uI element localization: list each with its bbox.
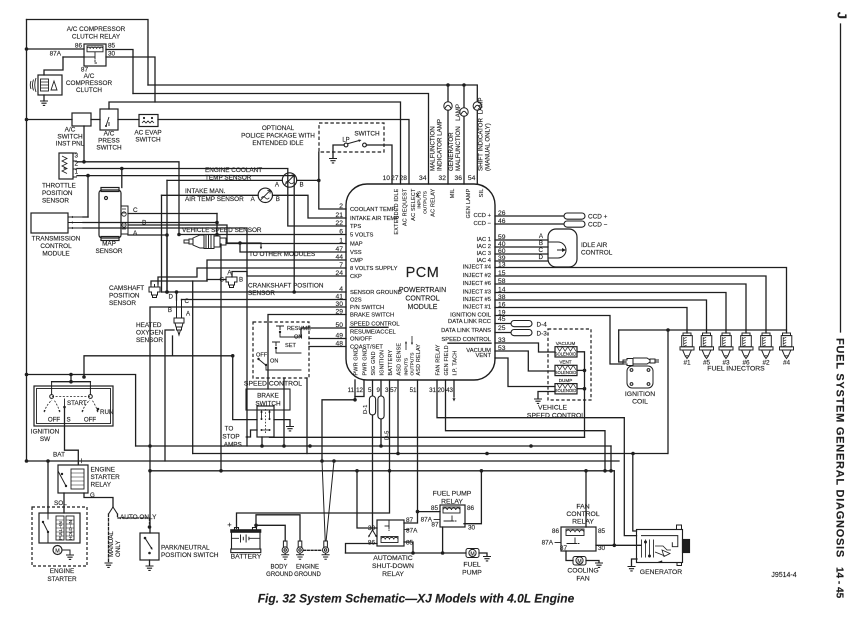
svg-text:POSITION: POSITION [109,293,140,300]
svg-text:VACUUM: VACUUM [556,341,576,346]
svg-text:11: 11 [348,387,355,394]
wire o2 shell to bus [165,330,174,461]
svg-text:FUEL PUMP: FUEL PUMP [433,491,472,498]
svg-text:OFF: OFF [84,417,97,424]
svg-text:D: D [169,294,174,301]
fuel injector #1 [680,330,694,359]
wire PCM pin 3 battery feed [237,380,390,529]
svg-text:GENERATOR: GENERATOR [448,132,455,171]
wire PCM pin 33 to vacuum solenoid [495,343,555,352]
wire PCM to injector #6 [495,284,746,333]
svg-text:A/C COMPRESSOR: A/C COMPRESSOR [67,26,126,33]
svg-text:O2S: O2S [350,298,362,304]
wire fuel pump relay 87 to pump [443,527,466,553]
svg-text:SWITCH: SWITCH [57,134,83,141]
speed control resume switch [276,326,284,330]
svg-text:BRAKE: BRAKE [257,393,279,400]
svg-text:SPEED CONTROL: SPEED CONTROL [244,381,302,388]
police package dashed enclosure [319,123,384,152]
svg-text:CONTROL: CONTROL [40,243,72,250]
engine starter dashed enclosure [32,507,87,566]
auto only split [109,507,114,514]
wire coil drop to generator [633,454,637,532]
ASD relay top contact stub [388,520,390,527]
wire ignition contact rail [52,381,91,383]
svg-text:HEATED: HEATED [136,322,162,329]
intake air temp sensor B3 [258,188,272,202]
svg-text:IGNITION COIL: IGNITION COIL [450,313,492,319]
svg-text:(MANUAL ONLY): (MANUAL ONLY) [485,123,492,171]
svg-text:INJECT #5: INJECT #5 [463,297,491,303]
svg-text:INST PNL: INST PNL [56,141,85,148]
svg-text:10: 10 [383,175,391,182]
svg-text:AC SELECT: AC SELECT [411,188,417,221]
svg-text:C: C [539,247,544,254]
wire brake switch to PCM pin 29 [268,315,346,390]
relay K1 A/C compressor clutch relay [84,44,106,66]
svg-text:J: J [835,12,850,19]
bus wire y446 [136,445,611,447]
svg-text:34: 34 [419,175,427,182]
svg-text:86: 86 [467,505,475,512]
svg-text:OUTPUTS: OUTPUTS [410,353,416,376]
svg-text:B: B [276,196,280,203]
wire cam sensor 8V [158,268,346,284]
wire relay pin 85 right [106,50,133,94]
dashed wire manual only to ground [108,514,110,562]
svg-text:FUEL: FUEL [463,562,481,569]
wire BAT to starter switch [47,461,49,513]
wire PCM to injector #5 [495,300,707,333]
svg-text:TO: TO [225,426,234,433]
svg-text:AC REQUEST: AC REQUEST [402,188,408,226]
CCD- connector [564,221,585,227]
svg-text:OFF: OFF [256,353,268,359]
svg-text:HOLD–IN: HOLD–IN [68,520,73,540]
svg-text:5: 5 [368,387,372,394]
wire PCM pin 31 fan relay route [437,380,637,536]
svg-text:P/N SWITCH: P/N SWITCH [350,305,384,311]
brake switch label box [246,389,290,410]
svg-text:STARTER: STARTER [47,576,77,583]
wire evap switch to PCM pin 28 [158,120,409,185]
svg-text:SWITCH: SWITCH [96,145,122,152]
ground stud G3 [322,461,325,540]
IAC pin C wire [495,253,548,255]
svg-text:RESUME/ACCEL: RESUME/ACCEL [350,330,397,336]
svg-text:12: 12 [356,387,363,394]
wire bus453 left riser [192,281,194,454]
svg-text:SOLENOID: SOLENOID [555,370,577,375]
svg-text:OFF: OFF [48,417,61,424]
throttle position sensor TPS connector [59,153,73,179]
svg-text:THROTTLE: THROTTLE [42,183,76,190]
wire PCM pin 11 ground drop [354,380,356,400]
svg-text:POSITION: POSITION [42,190,73,197]
svg-text:COOLANT TEMP: COOLANT TEMP [350,207,396,213]
wire MAP B signal [128,225,346,244]
wire PCM vent to dump solenoid [495,358,555,387]
brake switch ground [274,420,290,426]
svg-text:IAC 1: IAC 1 [477,237,492,243]
wire PCM pin 57 ASD sense drop [397,380,399,454]
node bus470 x150 [148,469,152,473]
svg-text:30: 30 [468,525,476,532]
A/C evaporator switch S3 [139,115,158,127]
svg-text:SENSOR: SENSOR [96,248,123,255]
svg-text:STOP: STOP [222,434,239,441]
svg-text:INJECT #6: INJECT #6 [463,281,491,287]
svg-text:36: 36 [455,175,463,182]
svg-text:RELAY: RELAY [91,482,112,489]
svg-text:85: 85 [598,528,606,535]
svg-text:BATTERY: BATTERY [231,554,262,561]
svg-text:M: M [55,549,60,555]
wire police box to ECT junction [318,152,320,180]
svg-text:SIG GND: SIG GND [371,351,377,375]
wire battery negative to engine ground [256,515,300,541]
svg-text:FUEL SYSTEM GENERAL DIAGNOSIS: FUEL SYSTEM GENERAL DIAGNOSIS [834,338,846,558]
wire 87A-feed to AC relay pin 34 [133,94,429,185]
svg-text:CONTROL: CONTROL [405,296,439,303]
wire top loop [27,20,149,86]
A/C switch instrument panel S1 [72,113,91,126]
node heater ground to brake feed [231,354,235,358]
node relay-86 junction [25,47,29,51]
svg-text:IDLE AIR: IDLE AIR [581,242,608,249]
svg-text:VEHICLE SPEED SENSOR: VEHICLE SPEED SENSOR [182,227,262,234]
svg-text:8 VOLTS SUPPLY: 8 VOLTS SUPPLY [350,266,398,272]
svg-text:SIL: SIL [479,189,485,198]
wire speed control to PCM pin 50 [301,328,346,337]
wire VSS out [226,242,261,244]
svg-text:FUEL INJECTORS: FUEL INJECTORS [707,366,765,373]
svg-text:SOLENOID: SOLENOID [555,351,577,356]
svg-text:A/C: A/C [84,73,95,80]
svg-text:D-4: D-4 [537,322,548,329]
svg-text:PULL–IN: PULL–IN [58,521,63,540]
svg-text:VENT: VENT [559,360,571,365]
svg-text:SWITCH: SWITCH [135,137,161,144]
wire CCD+ to connector [495,215,564,217]
svg-text:M: M [470,552,474,558]
wire relay pin 87A to clutch [63,56,84,58]
A/C compressor clutch M1 [38,75,62,95]
speed control set switch [272,342,280,346]
node bus446 x150 [148,444,152,448]
svg-text:TRANSMISSION: TRANSMISSION [32,236,81,243]
automatic shut-down relay K3 [377,520,404,546]
wire fan relay 30 to generator line [596,544,614,546]
wire speed control to PCM pin 49 [309,338,346,340]
wire O2S signal to PCM pin 41 [181,299,183,302]
wire coil feed drop [667,330,669,454]
svg-text:INJECT #3: INJECT #3 [463,290,491,296]
svg-text:CONTROL: CONTROL [566,511,599,518]
heated oxygen sensor B7 [174,300,184,335]
wire solenoid returns [577,352,585,438]
svg-text:30: 30 [598,545,606,552]
generator G4 [637,525,690,566]
battery BT1 [231,528,262,553]
svg-text:VENT: VENT [476,353,492,359]
svg-text:SPEED CONTROL: SPEED CONTROL [527,413,585,420]
node injector bus to coil branch [666,328,670,332]
wire O2S sensor ground to PCM pin 4 [176,292,178,300]
wire fan relay 87 to cooling fan [566,551,573,561]
svg-text:85: 85 [431,505,439,512]
wire A/C switch to TPS feed [83,126,85,162]
svg-text:CMP: CMP [350,258,363,264]
wire ASD 30 to bus [357,471,377,528]
wire IAT A to sensor ground [162,194,259,196]
node BAT junction [46,459,50,463]
svg-text:DATA LINK TRANS: DATA LINK TRANS [441,328,491,334]
wire ASD 85 right [404,542,413,553]
svg-text:AUTOMATIC: AUTOMATIC [373,555,412,562]
IAC pin D wire [495,260,548,262]
wire battery negative to body ground [256,525,285,541]
wire MAP A ground [128,235,167,292]
wire brake switch to speed control servo [270,436,585,438]
svg-text:CKP: CKP [350,274,362,280]
node bus453 x487 [485,452,489,456]
svg-text:M: M [577,559,581,565]
svg-text:GROUND: GROUND [266,572,293,578]
fuel pump M4 [466,549,479,558]
wire lamp feed bus [148,85,477,101]
svg-text:PRESS: PRESS [98,138,120,145]
wire PCM to injector #1 [495,308,687,334]
fuel injector #3 [719,330,733,359]
engine ground G2 [296,541,304,559]
svg-text:5 VOLTS: 5 VOLTS [350,233,374,239]
cooling fan ground [586,561,599,563]
wire pwr ground run to stud [322,400,355,461]
wire CCD- to connector [495,223,564,225]
ground below A/C clutch [43,95,45,101]
generator lamp DS2 [463,85,465,108]
svg-text:SHUT-DOWN: SHUT-DOWN [372,563,414,570]
svg-text:STARTER: STARTER [91,474,121,481]
body ground G1 [281,541,289,559]
svg-text:LAMP: LAMP [455,104,462,121]
dashed link engine ground to stud [304,549,323,551]
svg-text:INDICATOR LAMP: INDICATOR LAMP [437,119,444,171]
svg-text:IGNITION: IGNITION [31,429,60,436]
data link D-4 connector [511,321,532,327]
svg-text:87: 87 [406,517,414,524]
wire VSS body ground drop [220,244,222,471]
node bus446 x310 [308,444,312,448]
brake switch S5 [257,406,274,437]
wire o2 heater stub [172,336,174,356]
svg-text:INJECT #1: INJECT #1 [463,305,491,311]
svg-text:EXTENDED IDLE: EXTENDED IDLE [394,188,400,234]
wire PCM pin 5 sig ground drop [372,380,374,396]
fuel pump ground [479,553,487,556]
cooling fan M5 [573,557,586,566]
svg-text:B: B [300,182,304,189]
wire IAT B to PCM pin 21 [273,195,347,218]
to other modules arrow [260,243,262,247]
svg-text:20: 20 [438,387,445,394]
ignition switch S6 [34,386,113,426]
wire fuel pump relay 30 to bus [464,471,481,524]
svg-text:ENGINE COOLANT: ENGINE COOLANT [205,167,262,174]
wire PCM to injector #4 [495,268,787,334]
svg-text:CONTROL: CONTROL [581,250,613,257]
svg-text:45: 45 [498,316,506,323]
svg-text:PUMP: PUMP [462,570,482,577]
starter motor [53,546,62,555]
park/neutral switch ground [149,560,151,565]
connector D-5 [378,396,384,419]
svg-text:I.P. TACH: I.P. TACH [453,351,459,376]
wire left vertical bus [26,20,28,462]
svg-text:MAP: MAP [102,241,116,248]
speed control dashed enclosure [253,322,309,378]
svg-text:RUN: RUN [100,409,113,416]
svg-text:CCD +: CCD + [473,213,491,219]
bus wire y453 [193,453,668,455]
node MAP-A joins sensor ground [165,233,169,237]
wire A/C switch row [27,119,73,121]
fuel injector #2 [759,330,773,359]
svg-text:SENSOR: SENSOR [248,290,275,297]
svg-text:25: 25 [498,325,506,332]
A/C pressure switch S2 [100,109,118,130]
svg-text:D-1: D-1 [363,405,369,414]
wire PCM pin 51 ASD relay drop [404,380,418,523]
svg-text:OUTPUTS: OUTPUTS [423,191,429,214]
wire PCM pin 12 ground drop [355,380,364,397]
wire PCM pin 9 ignition drop [380,380,382,396]
svg-text:J9514-4: J9514-4 [771,572,796,579]
crankshaft position sensor B6 [226,277,237,288]
svg-text:SWITCH: SWITCH [354,131,380,138]
node gen lamp branch [462,83,466,87]
svg-text:FAN RELAY: FAN RELAY [436,344,442,375]
svg-text:86: 86 [552,528,560,535]
wire PCM pin 43 tach arrow [453,380,455,397]
wire LP switch to PCM pin 10 [367,145,393,184]
node to-other-modules branch [238,241,242,245]
svg-text:GROUND: GROUND [294,572,321,578]
svg-text:DATA LINK RCC: DATA LINK RCC [448,319,491,325]
IAC pin B wire [495,246,548,248]
page margin rule [840,24,842,332]
wire TPS pin2 signal to PCM 22 [77,169,346,227]
camshaft position sensor B5 [149,284,160,298]
svg-text:1: 1 [75,169,79,176]
fuel injector #6 [739,330,753,359]
engine coolant temp sensor B2 [282,173,296,187]
svg-text:IGNITION: IGNITION [380,350,386,376]
svg-text:COIL: COIL [632,399,648,406]
svg-text:POWERTRAIN: POWERTRAIN [399,287,446,294]
svg-text:INPUTS: INPUTS [417,191,423,209]
svg-text:GEN LAMP: GEN LAMP [466,188,472,218]
svg-text:AIR TEMP SENSOR: AIR TEMP SENSOR [185,196,244,203]
svg-text:ASD SENSE: ASD SENSE [397,343,403,376]
wire sensor-ground drop x161 [161,195,163,292]
bus wire y470 [150,470,614,472]
wire P/N switch to PCM pin 30 [150,307,346,533]
svg-text:3: 3 [75,153,79,160]
svg-text:BRAKE SWITCH: BRAKE SWITCH [350,313,394,319]
svg-text:LAMP: LAMP [478,98,485,115]
svg-text:28: 28 [400,175,408,182]
svg-text:IGNITION: IGNITION [625,391,655,398]
wire PCM pin 20 gen field route [446,380,606,471]
svg-text:TO OTHER MODULES: TO OTHER MODULES [249,251,315,258]
shift indicator lamp DS3 [473,102,481,110]
svg-text:PARK/NEUTRAL: PARK/NEUTRAL [161,545,210,552]
svg-text:B: B [539,240,543,247]
svg-text:ENGINE: ENGINE [296,565,319,571]
svg-text:MODULE: MODULE [408,304,438,311]
svg-text:51: 51 [410,387,417,394]
ignition coil T1 [623,358,659,388]
svg-text:INTAKE AIR TEMP: INTAKE AIR TEMP [350,216,399,222]
wire TPS pin3 to 5V [77,162,179,235]
svg-text:IAC 3: IAC 3 [477,251,492,257]
svg-text:MALFUNCTION: MALFUNCTION [455,126,462,171]
svg-text:MODULE: MODULE [42,251,69,258]
svg-text:MIL: MIL [450,189,456,199]
wire branch to MAP [121,169,123,188]
wire VSS to PCM pin 47 [240,243,346,252]
svg-text:3: 3 [385,387,389,394]
svg-text:CAMSHAFT: CAMSHAFT [109,285,144,292]
wire pwr gnd splice V [320,459,324,463]
wire CMP to PCM pin 44 [151,260,346,284]
svg-text:SENSOR: SENSOR [42,198,69,205]
svg-text:B: B [168,307,172,314]
svg-text:OPTIONAL: OPTIONAL [262,125,295,132]
svg-text:SENSOR GROUND: SENSOR GROUND [350,290,402,296]
wire speed control ground drop b [306,378,308,454]
fan control relay K5 [561,527,596,551]
svg-text:PWR GND: PWR GND [363,348,369,375]
dashed wire auto only to P/N switch [118,514,150,524]
fuel injector #4 [780,330,794,359]
svg-text:MALFUNCTION: MALFUNCTION [430,126,437,171]
wire ignition switch feed [27,375,136,447]
svg-text:GEN FIELD: GEN FIELD [444,345,450,375]
svg-text:CLUTCH RELAY: CLUTCH RELAY [72,34,121,41]
svg-text:ONLY: ONLY [115,541,122,557]
svg-text:IAC 2: IAC 2 [477,244,492,250]
svg-text:87: 87 [431,522,439,529]
svg-text:87A: 87A [50,51,62,58]
svg-text:SENSOR: SENSOR [109,300,136,307]
fuel injector supply bus [619,329,787,331]
wire CKP to PCM pin 24 [232,272,346,278]
svg-text:BAT: BAT [53,452,65,459]
wire to stop lamps [248,430,257,437]
wire relay pin 86 to bus [27,48,85,50]
svg-text:VSS: VSS [350,250,362,256]
wire bus446 drop x611 [610,446,612,471]
node ignition-feed junction [25,373,29,377]
node bus453 coil drop [631,452,635,456]
wire ECT A to sensor ground [167,179,282,181]
PCM powertrain control module U1 [346,184,495,380]
wire SOL to starter [63,493,65,513]
svg-text:RELAY: RELAY [572,519,594,526]
